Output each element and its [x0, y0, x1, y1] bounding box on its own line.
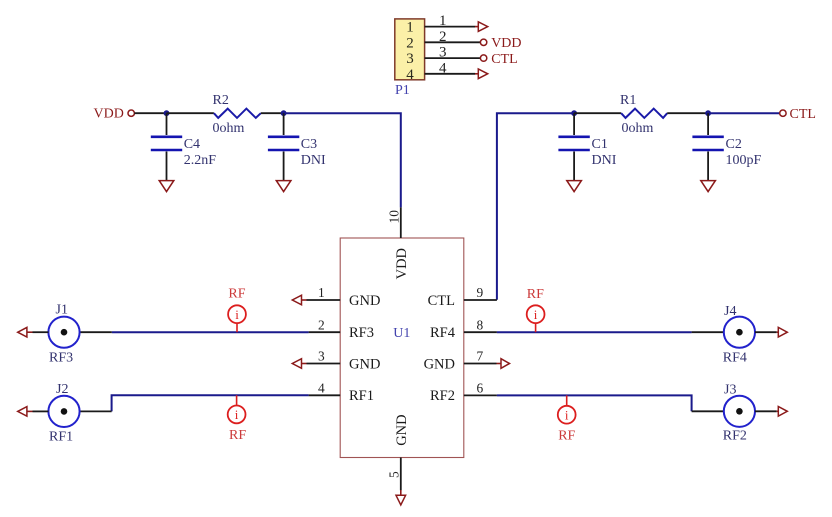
svg-text:RF3: RF3 [49, 350, 73, 365]
U1 pin 2 [309, 331, 341, 333]
svg-text:RF4: RF4 [430, 325, 456, 341]
capacitor C2 [692, 113, 723, 180]
port arrow J3 [777, 407, 788, 417]
wire CTL net from U1 pin 9 [497, 113, 574, 300]
svg-text:GND: GND [349, 356, 380, 372]
resistor R2 [214, 109, 261, 118]
port arrow pin 7 [497, 359, 510, 369]
junction [281, 110, 287, 116]
junction [571, 110, 577, 116]
svg-text:4: 4 [406, 67, 414, 83]
svg-text:GND: GND [424, 356, 455, 372]
svg-text:VDD: VDD [491, 36, 521, 51]
svg-text:2: 2 [318, 317, 325, 332]
svg-text:9: 9 [477, 285, 484, 300]
wire P1 pin 3 [425, 57, 481, 59]
port arrow J2 [18, 407, 33, 417]
capacitor C1 [558, 113, 589, 180]
svg-text:RF: RF [527, 287, 544, 302]
wire VDD port to junction [134, 112, 166, 114]
svg-text:VDD: VDD [394, 248, 410, 279]
svg-text:RF: RF [558, 429, 575, 444]
svg-text:RF3: RF3 [349, 325, 374, 341]
svg-text:5: 5 [387, 471, 402, 478]
port arrow pin 1 [292, 295, 306, 305]
svg-text:0ohm: 0ohm [213, 121, 245, 136]
svg-text:2.2nF: 2.2nF [184, 153, 217, 168]
svg-text:C3: C3 [301, 137, 317, 152]
U1 pin 1 [307, 299, 341, 301]
svg-text:DNI: DNI [301, 153, 326, 168]
svg-text:J2: J2 [56, 382, 68, 397]
wire net RF1 [112, 395, 309, 411]
svg-text:C2: C2 [726, 137, 742, 152]
svg-text:2: 2 [406, 35, 414, 51]
wire P1 pin 2 [425, 41, 481, 43]
IC U1 [340, 238, 464, 458]
svg-text:0ohm: 0ohm [622, 121, 654, 136]
wire R1 to junction [667, 112, 708, 114]
probe RF (bottom left) [228, 395, 247, 443]
connector J1 [33, 317, 112, 348]
connector J4 [692, 317, 777, 348]
U1 pin 6 [464, 394, 497, 396]
wire P1 pin 4 [425, 73, 476, 75]
svg-text:RF2: RF2 [430, 388, 455, 404]
wire junction to R2 [167, 112, 214, 114]
svg-text:RF1: RF1 [349, 388, 374, 404]
svg-text:RF2: RF2 [723, 429, 747, 444]
wire junction to CTL port [708, 112, 780, 114]
U1 pin 5 [400, 458, 402, 491]
svg-text:3: 3 [318, 349, 325, 364]
port arrow J4 [777, 327, 788, 337]
wire R2 to junction [261, 112, 284, 114]
wire P1 pin 1 [425, 26, 476, 28]
port arrow J1 [18, 327, 33, 337]
wire net RF3 [112, 331, 309, 333]
port arrow pin 3 [292, 359, 306, 369]
U1 pin 9 [464, 299, 497, 301]
svg-text:i: i [235, 407, 239, 422]
svg-text:100pF: 100pF [726, 153, 762, 168]
svg-text:8: 8 [477, 317, 484, 332]
port VDD [94, 107, 135, 122]
resistor R1 [621, 109, 667, 118]
svg-text:4: 4 [439, 60, 447, 76]
probe RF (top right) [527, 287, 545, 332]
svg-text:3: 3 [406, 51, 414, 67]
U1 pin 8 [464, 331, 497, 333]
svg-text:U1: U1 [393, 326, 410, 341]
svg-text:6: 6 [477, 381, 484, 396]
svg-text:R2: R2 [213, 93, 229, 108]
ground [159, 181, 174, 192]
svg-text:VDD: VDD [94, 107, 124, 122]
port CTL [780, 107, 816, 122]
svg-text:C4: C4 [184, 137, 200, 152]
ground [567, 181, 582, 192]
svg-text:4: 4 [318, 381, 325, 396]
svg-text:J3: J3 [724, 383, 736, 398]
svg-text:CTL: CTL [491, 52, 517, 67]
svg-text:1: 1 [439, 13, 447, 29]
svg-text:3: 3 [439, 45, 447, 61]
wire VDD net to U1 pin 10 [284, 113, 401, 207]
port arrow pin 4 [475, 69, 488, 79]
port CTL (P1) [480, 52, 517, 67]
U1 pin 4 [309, 394, 341, 396]
ground [276, 181, 291, 192]
capacitor C3 [268, 113, 299, 180]
svg-text:GND: GND [349, 293, 380, 309]
svg-text:10: 10 [387, 210, 402, 224]
svg-text:i: i [235, 307, 239, 322]
port VDD (P1) [480, 36, 521, 51]
port arrow pin 5 [396, 490, 406, 505]
capacitor C4 [151, 113, 182, 180]
svg-text:R1: R1 [620, 93, 636, 108]
svg-text:1: 1 [406, 20, 414, 36]
wire net RF2 [497, 395, 692, 411]
svg-text:RF1: RF1 [49, 430, 73, 445]
svg-text:GND: GND [394, 414, 410, 445]
svg-text:P1: P1 [395, 83, 410, 98]
U1 pin 3 [307, 363, 341, 365]
junction [705, 110, 711, 116]
svg-text:CTL: CTL [428, 293, 455, 309]
connector J2 [33, 396, 112, 427]
svg-text:DNI: DNI [592, 153, 617, 168]
svg-text:i: i [534, 307, 538, 322]
svg-text:J1: J1 [56, 303, 68, 318]
junction [164, 110, 170, 116]
svg-text:2: 2 [439, 29, 447, 45]
wire net RF4 [497, 331, 692, 333]
svg-text:RF4: RF4 [723, 350, 747, 365]
svg-text:CTL: CTL [790, 107, 816, 122]
probe RF (bottom right) [558, 395, 576, 443]
svg-text:RF: RF [229, 428, 246, 443]
svg-text:C1: C1 [592, 137, 608, 152]
svg-text:7: 7 [477, 349, 484, 364]
svg-text:i: i [565, 408, 569, 423]
connector P1 [395, 19, 425, 83]
connector J3 [692, 396, 777, 427]
probe RF (top left) [228, 287, 246, 333]
svg-text:J4: J4 [724, 304, 736, 319]
svg-text:RF: RF [228, 287, 245, 302]
U1 pin 7 [464, 363, 497, 365]
port arrow pin 1 [475, 22, 488, 32]
ground [701, 181, 716, 192]
svg-text:1: 1 [318, 285, 325, 300]
wire junction to R1 [574, 112, 621, 114]
U1 pin 10 [400, 207, 402, 238]
